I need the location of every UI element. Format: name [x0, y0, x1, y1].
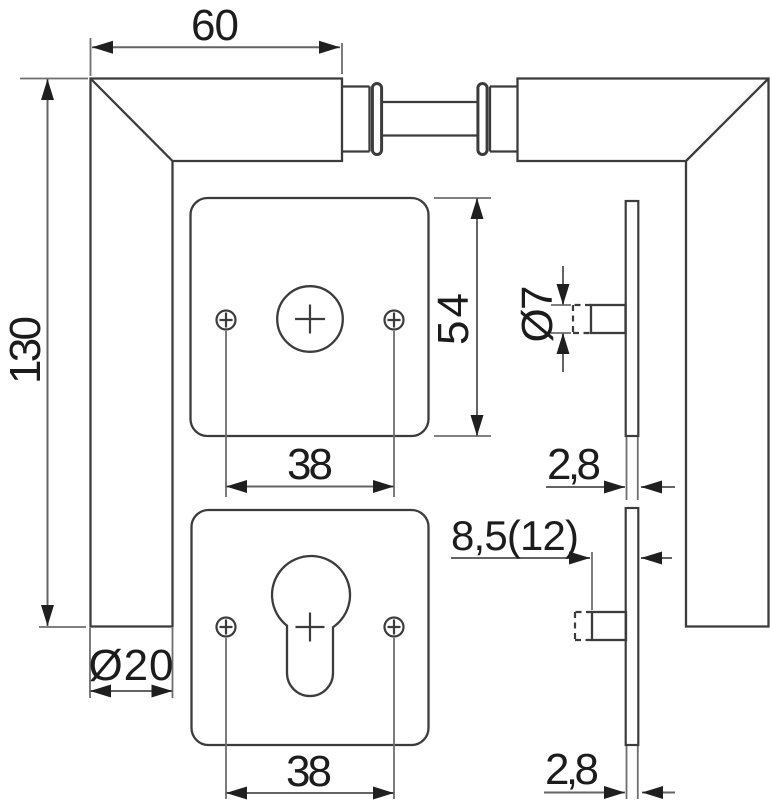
rosette 1 center cross — [295, 305, 325, 334]
ext: dim 54 bottom — [434, 435, 491, 437]
rosette 2 center cross — [296, 613, 325, 642]
ext: dim Ø20 left — [89, 628, 91, 698]
dimline 60 — [92, 46, 340, 48]
svg-text:60: 60 — [191, 1, 239, 50]
ext: dim 60 right — [341, 43, 343, 74]
dimline Ø20 — [90, 690, 173, 692]
arrow 2,8 upper left — [604, 481, 625, 494]
svg-text:130: 130 — [1, 316, 50, 384]
svg-text:2,8: 2,8 — [547, 440, 601, 489]
dimline 8,5(12) — [451, 557, 590, 559]
dimline 2,8 lower right — [642, 792, 675, 794]
ext: dim 38 upper right — [393, 331, 395, 497]
arrow 38 upper right — [373, 480, 394, 493]
arrow Ø20 right — [152, 685, 173, 698]
ext: dim 54 top — [434, 197, 491, 199]
left neck ring — [372, 84, 381, 155]
arrow 60 left — [92, 41, 113, 54]
arrow 54 bottom — [471, 415, 484, 436]
arrow 2,8 lower right — [642, 786, 663, 799]
dimline 38 lower — [226, 792, 394, 794]
dimline 54 — [476, 198, 478, 436]
side view plate 1 — [626, 201, 639, 436]
dimline 8,5(12) right stub — [641, 557, 672, 559]
left handle bend edge — [91, 79, 173, 162]
rosette 2 left screw — [217, 618, 236, 637]
left handle outline — [91, 79, 343, 627]
arrow Ø20 left — [90, 685, 111, 698]
arrow 8,5(12) main — [569, 552, 590, 565]
dimline 130 — [47, 79, 49, 626]
arrow 38 lower right — [373, 787, 394, 800]
ext: dim 38 lower right — [393, 638, 395, 799]
dimline 2,8 upper left — [546, 486, 625, 488]
arrow 130 top — [41, 79, 54, 100]
arrow 38 upper left — [226, 480, 247, 493]
svg-text:Ø20: Ø20 — [89, 641, 174, 690]
arrow Ø7 top — [557, 284, 570, 305]
ext: dim 2,8 upper left — [626, 437, 628, 500]
side view plate 2 — [626, 508, 639, 745]
ext: dim Ø7 top tick — [551, 304, 571, 306]
rosette 1 left screw — [217, 311, 236, 330]
rosette 2 plate — [192, 510, 429, 745]
ext: dim 2,8 lower right — [637, 746, 639, 799]
svg-text:8,5(12): 8,5(12) — [451, 512, 579, 559]
dimline Ø7 lower — [562, 333, 564, 372]
arrowheads — [41, 41, 663, 800]
ext: dim 2,8 upper right — [637, 437, 639, 500]
ext: dim 38 lower left — [225, 638, 227, 799]
side view hub 1 hidden (dashed) — [573, 305, 591, 333]
ext: dim 130 top horizontal — [20, 78, 88, 80]
svg-text:38: 38 — [286, 747, 332, 796]
ext: dim Ø20 right — [172, 628, 174, 698]
arrow 130 bottom — [41, 605, 54, 626]
rosette 2 euro profile cutout — [272, 556, 350, 696]
svg-text:2,8: 2,8 — [545, 745, 599, 794]
dimline 38 upper — [226, 486, 394, 488]
right neck ring — [478, 84, 487, 155]
ext: dim 38 upper left — [225, 331, 227, 497]
right neck collar — [490, 87, 518, 152]
ext: dim 130 bottom horizontal — [39, 626, 86, 628]
side view hub 1 solid — [591, 305, 626, 333]
rosette 1 center hole — [277, 286, 343, 352]
arrow 8,5(12) right — [641, 552, 662, 565]
right handle bend edge — [686, 79, 769, 162]
ext: dim 8,5 riser — [591, 552, 593, 610]
extension lines — [20, 38, 638, 799]
ext: dim 60 left / dim 130 top riser — [90, 38, 92, 76]
rosette 2 right screw — [385, 618, 404, 637]
arrow 38 lower left — [226, 787, 247, 800]
spindle — [382, 102, 479, 136]
ext: dim 2,8 lower left — [626, 746, 628, 799]
arrow 2,8 upper right — [641, 481, 662, 494]
dimension lines — [48, 47, 676, 793]
arrow 54 top — [471, 198, 484, 219]
ext: dim Ø7 bottom tick — [551, 332, 571, 334]
svg-text:Ø7: Ø7 — [513, 286, 562, 343]
dimline 2,8 lower left — [544, 792, 625, 794]
rosette 1 right screw — [385, 311, 404, 330]
arrow 60 right — [319, 41, 340, 54]
rosette 1 plate — [191, 198, 429, 436]
dimline Ø7 upper — [562, 266, 564, 305]
arrow 2,8 lower left — [604, 786, 625, 799]
side view hub 2 hidden (dashed) — [575, 612, 592, 640]
left neck collar — [342, 87, 370, 152]
arrow Ø7 bottom — [557, 333, 570, 354]
side view hub 2 solid — [592, 612, 626, 640]
svg-text:38: 38 — [287, 440, 333, 489]
dimline 2,8 upper right — [641, 486, 675, 488]
right handle outline — [518, 79, 769, 627]
